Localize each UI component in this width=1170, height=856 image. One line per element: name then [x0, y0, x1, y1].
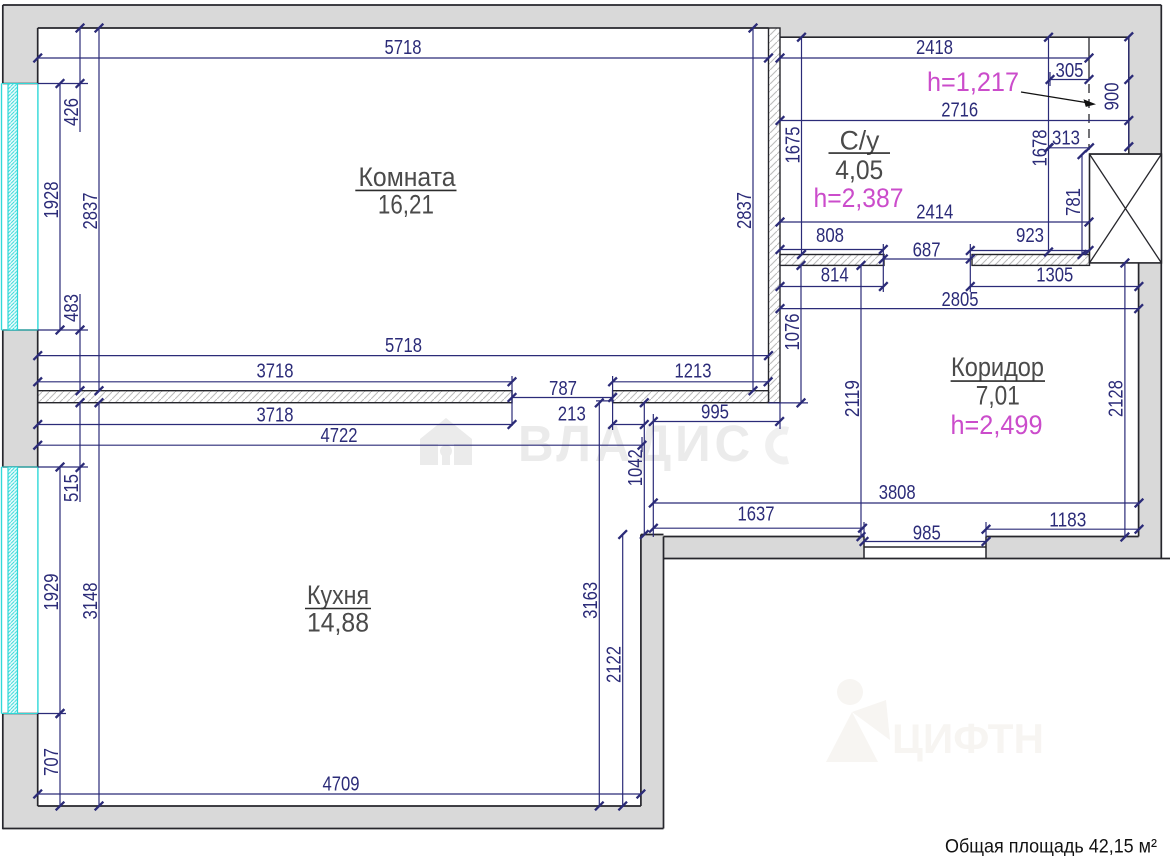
dimension 1928 window1	[41, 79, 65, 334]
dimension 1042 kitchen doorway	[625, 398, 649, 538]
watermark house icon	[420, 418, 472, 465]
wall left pier between windows	[3, 330, 38, 467]
svg-text:1042: 1042	[625, 449, 647, 486]
extension line corridor bottom-left	[652, 414, 654, 537]
dimension 5718 top	[33, 37, 772, 62]
svg-text:4709: 4709	[323, 774, 360, 796]
partition wall bathroom bottom piece A	[780, 255, 884, 266]
bathroom top inner wall edge	[780, 36, 1129, 38]
svg-text:483: 483	[61, 294, 83, 322]
svg-text:Комната: Комната	[359, 162, 456, 192]
label room Komnata	[355, 162, 456, 220]
dimension 687 bath door opening	[879, 240, 975, 264]
watermark text VLADIS	[518, 415, 754, 472]
svg-text:h=2,499: h=2,499	[951, 410, 1043, 440]
dimension 515 kitchen to window2	[61, 398, 85, 502]
window 2 (kitchen)	[2, 467, 38, 714]
svg-text:426: 426	[61, 98, 83, 126]
kitchen right wall top edge	[641, 534, 664, 536]
dimension 3718 kitchen side	[33, 405, 516, 429]
dimension 787 door opening	[508, 378, 617, 402]
dimension 781 shaft side height	[1063, 150, 1087, 258]
dimension 1305 corridor side right	[966, 265, 1143, 291]
room top inner wall edge	[38, 27, 769, 29]
svg-text:313: 313	[1052, 128, 1080, 150]
niche boundary line solid part	[1088, 37, 1090, 80]
svg-text:Кухня: Кухня	[307, 580, 369, 610]
svg-text:14,88: 14,88	[307, 608, 369, 638]
ventilation shaft box with X	[1090, 154, 1162, 263]
svg-text:Общая площадь 42,15 м²: Общая площадь 42,15 м²	[945, 836, 1157, 856]
extension line right of kitchen wall corner	[769, 402, 809, 404]
dimension 2837 room height left	[80, 24, 104, 395]
dimension 426 above window1	[61, 24, 85, 132]
wall top band right (above bathroom)	[769, 5, 1161, 37]
corridor bottom wall top edge right	[986, 536, 1139, 538]
svg-text:2805: 2805	[942, 289, 979, 311]
dimension 5718 above room bottom wall	[33, 335, 772, 360]
svg-text:1928: 1928	[41, 182, 63, 219]
svg-text:687: 687	[913, 240, 941, 262]
svg-text:787: 787	[549, 378, 577, 400]
partition wall room/bathroom (vertical)	[769, 28, 781, 403]
bottom block top edge	[3, 713, 38, 715]
outer edge top	[3, 4, 1162, 6]
leader arrow to dashed line	[1021, 92, 1096, 107]
wall corridor bottom right piece	[986, 537, 1161, 559]
svg-text:2119: 2119	[842, 380, 864, 417]
wall top-right corner chunk	[1129, 5, 1162, 154]
wall kitchen-corridor	[641, 535, 664, 829]
dimension 2837 room height right	[734, 24, 758, 395]
dimension 707 below window2	[41, 709, 65, 810]
wall bottom band (kitchen)	[3, 806, 664, 829]
extension line entrance jamb right	[985, 522, 987, 537]
svg-text:С/у: С/у	[840, 126, 881, 156]
dimension 3808 corridor bottom width	[649, 482, 1143, 507]
label bathroom S/u	[829, 126, 891, 186]
dimension 900 niche height	[1101, 33, 1133, 152]
dimension 2805 corridor top width	[776, 289, 1143, 313]
partition wall room/corridor piece B	[613, 391, 769, 403]
svg-text:995: 995	[701, 402, 729, 424]
svg-text:1637: 1637	[738, 504, 775, 526]
dimension 985 entrance opening	[860, 523, 991, 546]
outer edge left segment 3	[2, 714, 4, 830]
dimension 1678 bath height right	[1029, 33, 1053, 256]
svg-text:1675: 1675	[782, 127, 804, 164]
dimension 808 bath wall left pier	[776, 225, 888, 254]
svg-text:707: 707	[41, 748, 63, 776]
svg-text:2414: 2414	[916, 202, 953, 224]
svg-text:4,05: 4,05	[835, 155, 883, 185]
svg-text:900: 900	[1101, 82, 1123, 110]
extension line 305 left end	[1049, 72, 1051, 86]
dimension 923 bath wall right pier	[966, 225, 1093, 255]
outer edge right	[1160, 5, 1162, 559]
dimension 3163 kitchen height right	[580, 399, 604, 811]
left wall inner edge bottom	[37, 714, 39, 807]
svg-text:5718: 5718	[385, 37, 422, 59]
svg-text:985: 985	[913, 523, 941, 545]
svg-text:h=2,387: h=2,387	[814, 183, 904, 213]
svg-text:2837: 2837	[80, 193, 102, 230]
extension line door jamb 787 left up	[511, 376, 513, 426]
svg-text:ЦИФТН: ЦИФТН	[892, 715, 1044, 762]
wall corridor right	[1139, 263, 1162, 559]
watermark 2 text	[892, 715, 1044, 762]
svg-text:2837: 2837	[734, 192, 756, 229]
svg-text:2122: 2122	[604, 646, 626, 683]
outer edge bottom (corridor)	[664, 558, 1170, 560]
extension line 4722 right end	[641, 437, 643, 452]
svg-text:1678: 1678	[1029, 130, 1051, 167]
dimension 2119 corridor height left	[842, 261, 866, 541]
dimension 2414 bathroom bottom width	[776, 202, 1094, 227]
dimension 814 corridor side pier	[776, 265, 888, 291]
dimension 1929 window2	[41, 463, 65, 718]
svg-text:3718: 3718	[257, 405, 294, 427]
dimension 3718 room side	[33, 361, 516, 387]
svg-text:808: 808	[816, 225, 844, 247]
svg-text:5718: 5718	[385, 335, 422, 357]
extension line below room/bath wall	[779, 403, 781, 429]
svg-text:2716: 2716	[941, 100, 978, 122]
dimension 1183 corridor bottom right	[982, 510, 1144, 534]
extension line door jamb 787 down	[612, 403, 614, 430]
entrance jamb left	[863, 537, 865, 559]
svg-text:3808: 3808	[879, 482, 916, 504]
height label h=1,217 (niche)	[927, 67, 1019, 97]
dimension 2128 corridor height right	[1106, 259, 1130, 542]
entrance jamb right	[985, 537, 987, 559]
outer edge bottom (kitchen)	[3, 828, 664, 830]
svg-text:213: 213	[558, 404, 586, 426]
niche low-ceiling dashed line	[1088, 84, 1090, 150]
dimension 305 niche width	[1046, 60, 1094, 84]
svg-text:3718: 3718	[257, 361, 294, 383]
svg-text:814: 814	[821, 265, 849, 287]
extension line bath door jamb right	[969, 244, 971, 292]
svg-text:515: 515	[61, 474, 83, 502]
svg-text:4722: 4722	[321, 425, 358, 447]
svg-text:1929: 1929	[41, 574, 63, 611]
wall top-left corner block	[3, 5, 38, 84]
extension line window2 bottom	[38, 713, 66, 715]
niche chunk left edge	[1128, 37, 1130, 154]
svg-text:1183: 1183	[1049, 510, 1086, 532]
svg-text:923: 923	[1016, 225, 1044, 247]
partition wall bathroom bottom piece B	[972, 255, 1090, 266]
window 1 (room)	[2, 84, 38, 331]
pier top edge	[3, 329, 38, 331]
outer edge left segment 2	[2, 330, 4, 467]
wall corridor bottom left piece	[664, 537, 865, 559]
dimension 4722 kitchen top width	[33, 425, 646, 450]
svg-text:1076: 1076	[782, 314, 804, 351]
svg-text:7,01: 7,01	[976, 381, 1020, 411]
dimension 4709 kitchen bottom width	[33, 774, 645, 799]
kitchen bottom inner wall edge	[38, 805, 641, 807]
svg-text:2128: 2128	[1106, 380, 1128, 417]
dimension 1213 room-corridor wall	[608, 361, 772, 387]
watermark arc glyph	[769, 431, 788, 461]
left wall inner edge mid pier	[37, 330, 39, 467]
height label h=2,387 (bathroom)	[814, 183, 904, 213]
extension line bath door jamb left	[882, 244, 884, 292]
partition wall room/kitchen piece A	[38, 391, 512, 403]
svg-text:2418: 2418	[916, 37, 953, 59]
svg-text:3163: 3163	[580, 582, 602, 619]
extension line door jamb 787 right up	[612, 376, 614, 403]
dimension 1637 corridor bottom left	[649, 504, 867, 533]
niche bottom edge / shaft top	[1089, 153, 1161, 155]
wall top band left (above room)	[3, 5, 769, 28]
outer edge left segment 1	[2, 5, 4, 84]
extension line window1 top	[38, 83, 88, 85]
svg-text:h=1,217: h=1,217	[927, 67, 1019, 97]
svg-text:16,21: 16,21	[378, 190, 434, 220]
block bottom edge at window1 top	[3, 83, 38, 85]
kitchen right wall inner edge	[640, 535, 642, 807]
entrance threshold line	[864, 546, 986, 548]
dimension 2418 bathroom top width	[776, 37, 1094, 62]
dimension 3148 kitchen height left	[80, 398, 104, 810]
svg-text:3148: 3148	[80, 583, 102, 620]
dimension 2122 kitchen wall lower	[604, 530, 628, 810]
extension line window1 bottom	[38, 329, 88, 331]
dimension 313 niche lower	[1045, 128, 1094, 153]
wall left bottom block	[3, 714, 38, 807]
extension line entrance jamb left	[863, 522, 865, 537]
note total area	[945, 836, 1157, 856]
dimension 483 below window1	[61, 294, 85, 395]
svg-text:305: 305	[1056, 60, 1084, 82]
svg-text:Коридор: Коридор	[951, 352, 1044, 382]
dimension 1076 corridor nook height	[782, 261, 806, 407]
dimension 2716 bathroom+niche width	[776, 100, 1133, 125]
svg-text:1213: 1213	[675, 361, 712, 383]
label kitchen Kuhnya	[305, 580, 371, 638]
label corridor Koridor	[951, 352, 1045, 411]
svg-text:1305: 1305	[1036, 265, 1073, 287]
dimension 213 wall stub	[558, 404, 649, 429]
pier bottom edge	[3, 466, 38, 468]
corridor bottom wall top edge left	[664, 536, 865, 538]
outer edge kitchen wall right side	[663, 537, 665, 829]
extension line window2 top	[38, 466, 88, 468]
dimension 1675 bathroom height left	[782, 33, 806, 259]
svg-text:781: 781	[1063, 188, 1085, 216]
corridor right wall inner edge	[1138, 263, 1140, 537]
watermark 2 icon	[826, 679, 890, 762]
dimension 995 corridor nook	[649, 402, 784, 426]
height label h=2,499 (corridor)	[951, 410, 1043, 440]
left wall inner edge top block	[37, 28, 39, 84]
extension line kitchen top left of door	[596, 400, 614, 402]
